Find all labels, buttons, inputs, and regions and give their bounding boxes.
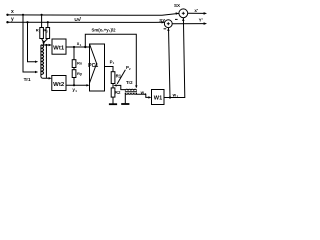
svg-text:R2: R2 xyxy=(115,90,121,95)
block Wt1 xyxy=(52,39,66,54)
wire SY bottom arrowhead xyxy=(167,28,169,31)
wire SY negative input xyxy=(169,28,171,98)
label Uv (rail voltage) xyxy=(74,16,81,23)
node x input terminal xyxy=(6,14,8,16)
node y1 junction xyxy=(73,84,75,86)
transformer Tr1 winding xyxy=(41,45,44,75)
svg-text:Tr1: Tr1 xyxy=(24,77,31,82)
ground (R2) xyxy=(109,103,117,105)
wire node x1 from Wt1 to PC1 xyxy=(66,46,90,48)
wire R1 to R2 with wiper junction xyxy=(112,84,114,88)
node x1 junction to Rx xyxy=(73,46,75,48)
svg-text:Tr2: Tr2 xyxy=(126,80,133,85)
transformer Tr2 secondary winding xyxy=(125,93,136,94)
transformer Tr2 core xyxy=(125,91,137,93)
wire y' output xyxy=(172,23,204,25)
resistor R2' (right divider resistor) xyxy=(46,28,50,39)
wire node y1 from Wt2 to PC1 xyxy=(66,84,87,86)
resistor R1 (potentiometer) xyxy=(111,72,115,84)
resistor Ry xyxy=(72,70,76,78)
node x1 junction to Sm wire xyxy=(84,46,86,48)
wire wiper to Tr2 primary xyxy=(116,85,125,89)
svg-text:Wt2: Wt2 xyxy=(53,82,64,88)
svg-text:SX: SX xyxy=(174,3,180,8)
svg-text:SY: SY xyxy=(159,18,165,23)
wire tap A from y-rail to Tr1 upper tap xyxy=(28,22,36,62)
ground (Tr2) xyxy=(121,103,129,105)
svg-text:Ry: Ry xyxy=(77,71,83,76)
wire Tr1 winding chord xyxy=(40,45,42,75)
wire P2 leader xyxy=(117,70,125,84)
wire Sm output from x1 node over to Tr2 xyxy=(85,34,136,86)
svg-text:Wt1: Wt1 xyxy=(53,45,64,51)
summator SY xyxy=(164,20,172,28)
wire y-rail xyxy=(8,21,165,23)
wire Tr1 bottom to Wt2 input xyxy=(41,75,50,79)
svg-text:W1: W1 xyxy=(154,95,162,101)
block W1 xyxy=(152,90,165,105)
block Wt2 xyxy=(52,76,66,91)
transformer Tr2 primary winding xyxy=(125,89,136,90)
wire w2 from W1 to summators xyxy=(164,18,185,98)
node y input terminal xyxy=(6,21,8,23)
svg-text:y: y xyxy=(11,17,14,23)
wire Rx to Ry xyxy=(73,68,75,70)
summator SX xyxy=(179,9,188,18)
wire top node down to Wt2 input xyxy=(45,45,47,78)
svg-text:x: x xyxy=(11,9,14,15)
node junction top node xyxy=(45,44,47,46)
wire Tr2 secondary left to ground xyxy=(124,93,126,104)
wire SX bottom arrowhead xyxy=(182,18,184,21)
label minus (SX input) xyxy=(175,18,178,20)
wire resistor merge junction xyxy=(42,39,44,43)
wire w1 from Tr2 secondary to W1 xyxy=(137,93,150,98)
svg-text:PC1: PC1 xyxy=(88,63,98,69)
wire x' output xyxy=(188,12,205,14)
wire x1 node to Rx xyxy=(73,47,75,60)
resistor Rx xyxy=(72,60,76,68)
wire from y-rail to resistor R2' xyxy=(47,22,49,27)
node junction w2 to SY xyxy=(169,96,171,98)
svg-text:Sm(x₁+y₁)/2: Sm(x₁+y₁)/2 xyxy=(92,27,116,32)
wire from x-rail to resistor R1' xyxy=(41,15,43,28)
wire top node to Wt1 input xyxy=(41,44,50,46)
label minus (SY input) xyxy=(164,28,167,30)
svg-text:Rx: Rx xyxy=(77,61,83,66)
wire PC1 output to R1 xyxy=(105,67,114,72)
resistor R1' (left divider resistor) xyxy=(40,28,44,39)
resistor R2 xyxy=(111,88,115,97)
wire Ry to y1 node xyxy=(73,78,75,86)
wire x-rail xyxy=(8,13,179,15)
wire R2 to ground xyxy=(112,97,114,104)
block PC1 xyxy=(90,44,105,91)
wire tap B from x-rail to Tr1 lower tap xyxy=(23,15,35,72)
